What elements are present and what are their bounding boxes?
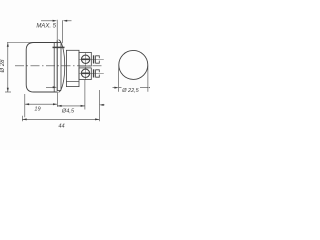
svg-text:MAX. 5: MAX. 5 xyxy=(36,23,56,29)
right stub extension xyxy=(98,90,100,121)
dimension 19 line xyxy=(25,103,58,105)
terminal 2 box xyxy=(79,68,91,80)
dimension D4,5 line xyxy=(57,105,85,107)
dimension D28 line xyxy=(7,43,9,93)
svg-text:19: 19 xyxy=(34,107,40,113)
dimension D28 extension bottom xyxy=(5,91,11,93)
leader arrow at flange bottom xyxy=(46,86,55,88)
flange bottom edge xyxy=(57,90,61,92)
dimension MAX 5 line left with arrow xyxy=(41,20,53,22)
dimension 19 extensions xyxy=(24,94,26,117)
terminal 1 clamp bar xyxy=(93,55,95,63)
flange disc back xyxy=(60,43,62,91)
dimension 44 line xyxy=(22,118,99,120)
flange top edge xyxy=(57,42,61,44)
terminal screw 2 xyxy=(81,69,89,77)
dimension MAX 5 extensions xyxy=(56,20,58,40)
dimension D28 extension top xyxy=(7,42,61,44)
body internal line xyxy=(66,81,79,83)
dimension D22,5 extensions xyxy=(118,66,120,92)
svg-text:Ø 22,5: Ø 22,5 xyxy=(121,88,139,94)
right stub arrow xyxy=(101,104,105,106)
front view circle xyxy=(119,50,148,79)
dimension 44 extension left xyxy=(21,116,23,122)
dimension D22,5 line with arrows xyxy=(113,87,116,89)
switch body xyxy=(66,50,79,86)
cap back edge xyxy=(53,43,55,93)
dimension D4,5 extension xyxy=(84,80,86,110)
dimension MAX 5 line right with arrow xyxy=(67,20,72,22)
flange front face xyxy=(56,40,58,91)
terminal screw 1 xyxy=(81,55,89,63)
svg-text:44: 44 xyxy=(58,124,64,130)
button cap outline xyxy=(26,43,57,93)
terminal 1 clamp bracket xyxy=(96,56,100,63)
svg-text:Ø4,5: Ø4,5 xyxy=(61,109,75,115)
centerline xyxy=(15,65,104,67)
terminal 2 clamp bracket xyxy=(96,70,100,77)
flange dome arc xyxy=(59,40,65,93)
terminal 2 clamp bar xyxy=(93,69,95,77)
terminal 1 box xyxy=(79,52,91,66)
svg-text:Ø 28: Ø 28 xyxy=(0,59,6,74)
panel section mark xyxy=(53,46,65,48)
